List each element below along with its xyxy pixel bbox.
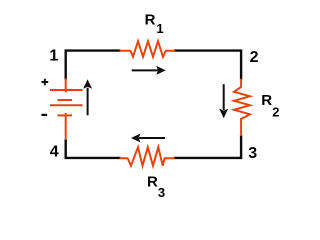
svg-text:2: 2 [250, 49, 259, 66]
svg-text:1: 1 [49, 48, 58, 65]
svg-text:R: R [261, 92, 272, 109]
svg-text:R: R [147, 173, 158, 190]
svg-text:1: 1 [156, 21, 163, 36]
svg-text:R: R [145, 11, 156, 28]
svg-text:4: 4 [50, 143, 59, 160]
svg-text:2: 2 [272, 104, 279, 119]
svg-text:3: 3 [158, 185, 165, 200]
svg-text:3: 3 [248, 145, 257, 162]
